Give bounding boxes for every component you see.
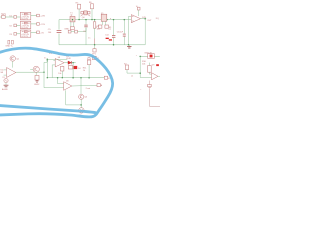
vertical x81 from bus: [80, 78, 82, 95]
lasso main: [0, 48, 113, 117]
wire pad2-box2: [17, 24, 21, 26]
supply symbol above U2: [137, 7, 140, 10]
pad P3L: [14, 33, 17, 36]
svg-text:1.8V: 1.8V: [142, 17, 147, 19]
transistor Q3 circle: [79, 94, 84, 99]
svg-text:B: B: [108, 78, 110, 80]
junction bus x57.6: [57, 77, 59, 79]
junction bus x81: [80, 77, 82, 79]
resistor R7 column x94.6: [94, 20, 96, 22]
svg-text:104: 104: [105, 34, 108, 36]
svg-text:DC2 PS: DC2 PS: [22, 27, 29, 29]
bottom-left connector circle: [4, 79, 8, 83]
pushbutton S2: [125, 65, 128, 70]
wire after diode: [72, 62, 76, 64]
wire C5 to rail: [58, 34, 60, 45]
svg-text:4148: 4148: [66, 58, 70, 60]
svg-text:AGND: AGND: [2, 88, 8, 91]
stubs below T1: [70, 22, 72, 27]
pad below rail x94.6: [94, 44, 96, 46]
crystal Q4: [81, 11, 83, 14]
wire A main net: [59, 20, 131, 30]
junction net A x124.3: [124, 19, 126, 21]
svg-text:rly: rly: [70, 14, 72, 17]
svg-text:+5V: +5V: [40, 32, 44, 34]
pink box T2: [101, 14, 107, 21]
cap column x113.5: [113, 20, 115, 35]
op-amp U1A: [7, 68, 16, 78]
junction net A x107: [106, 19, 108, 21]
ground G1: [128, 45, 130, 46]
svg-text:x1: x1: [131, 76, 134, 78]
Q2 stubs: [30, 68, 33, 70]
svg-text:2B: 2B: [66, 80, 69, 82]
svg-text:10k: 10k: [58, 73, 61, 75]
wire box3-pad R3: [31, 31, 37, 33]
resistor R8 vertical: [61, 65, 63, 68]
pad J2 right: [92, 56, 96, 59]
wire box2-pad R2: [31, 23, 37, 25]
svg-text:10k: 10k: [97, 28, 101, 30]
svg-text:+: +: [140, 89, 142, 91]
vertical x47.3: [46, 59, 48, 77]
svg-text:DC3 PS: DC3 PS: [22, 36, 29, 38]
red diode blob top right: [156, 64, 159, 66]
connector circle M1: [79, 108, 84, 113]
stub to junction: [80, 99, 82, 107]
pad P3R: [37, 31, 40, 34]
svg-text:V3: V3: [9, 34, 12, 36]
U1A output wire: [16, 71, 44, 73]
svg-text:D4: D4: [78, 68, 80, 70]
junction net A x79: [78, 19, 79, 20]
wire feedback step to node: [44, 62, 47, 87]
svg-text:S2: S2: [124, 64, 127, 66]
svg-text:2 out: 2 out: [86, 87, 91, 90]
connector J1: [2, 15, 6, 18]
svg-text:OUT: OUT: [147, 20, 152, 22]
svg-text:1n: 1n: [88, 37, 90, 39]
resistor R9: [68, 66, 72, 69]
minus input wire: [57, 78, 59, 84]
wire pad3-box3: [17, 33, 21, 35]
L wire bottom right: [150, 88, 161, 106]
feedback vertical x128.5: [129, 16, 132, 44]
R7 lower lead red: [94, 39, 96, 45]
svg-text:104: 104: [48, 32, 52, 34]
wire y59.3: [47, 58, 68, 60]
box below Q2: [35, 75, 39, 80]
svg-text:A: A: [101, 84, 103, 87]
wire y73.1: [127, 72, 140, 74]
junction bus x47.3: [47, 77, 48, 78]
diode D3: [64, 62, 68, 64]
supply pair R20 R21: [8, 40, 10, 44]
pink box T1: [70, 16, 75, 22]
ground bottom-left: [4, 84, 9, 86]
svg-text:1k: 1k: [83, 70, 86, 72]
junction output tee x44: [43, 72, 44, 73]
converter box U10: [20, 12, 31, 20]
lasso inner tail: [0, 106, 96, 113]
resistor R10: [148, 66, 152, 73]
vertical from junction: [139, 56, 141, 77]
stubs below T2: [101, 21, 103, 25]
pad P1R: [37, 14, 40, 17]
junction net A x113.5: [113, 19, 115, 21]
red polarity marks: [106, 38, 109, 39]
cap column x124.3: [123, 20, 125, 34]
svg-text:1N4148: 1N4148: [144, 53, 152, 55]
plus input wire: [44, 87, 64, 89]
svg-text:2A: 2A: [58, 56, 61, 59]
junction bus x89.1: [88, 77, 90, 79]
svg-text:V+: V+: [136, 6, 139, 8]
blue highlight lasso stroke: [0, 48, 113, 117]
svg-text:Q4: Q4: [82, 17, 86, 19]
svg-text:Q1: Q1: [16, 58, 20, 60]
wire pad1-box1: [17, 16, 21, 18]
wire y56.4: [140, 55, 148, 57]
capacitor C5: [57, 30, 62, 32]
svg-text:10k: 10k: [142, 64, 146, 66]
stub below Q1: [12, 61, 14, 67]
pad pair JP1: [68, 30, 71, 33]
diode D8 box: [148, 54, 155, 59]
wire J1 to pad1: [0, 16, 2, 18]
wire box1-pad R1: [31, 15, 37, 17]
pad P1L: [14, 16, 17, 19]
pad P2L: [14, 24, 17, 27]
junction net A x94.6: [94, 19, 96, 21]
svg-text:X1: X1: [2, 77, 4, 79]
svg-text:SV1: SV1: [1, 13, 6, 16]
svg-text:Q3: Q3: [84, 97, 88, 99]
crystal network: resistor R5: [78, 4, 81, 9]
op-amp U3: [55, 59, 64, 67]
converter box U12: [20, 30, 31, 37]
svg-text:GND2: GND2: [34, 84, 39, 86]
transistor Q1 circle: [10, 56, 15, 61]
resistor R11 column x89: [88, 58, 90, 60]
wire from JP1 to cap column: [77, 28, 86, 32]
junction bus x73.1: [72, 77, 74, 79]
svg-text:FQ: FQ: [156, 18, 159, 20]
svg-text:V2: V2: [9, 26, 12, 28]
junction node x47.3 y60.9: [47, 60, 48, 61]
wire to op-amp5 plus input: [140, 77, 151, 79]
junction net A x92: [91, 19, 92, 20]
bus end pad: [104, 76, 107, 79]
svg-text:C5: C5: [48, 29, 52, 31]
svg-text:DC1 PS: DC1 PS: [22, 18, 29, 20]
crystal marks: [81, 15, 84, 17]
svg-text:C7: C7: [109, 29, 111, 31]
op-amp U2: [131, 15, 140, 23]
comps below T2: [98, 25, 102, 28]
junction rail x113.5: [113, 44, 115, 46]
comp below T1: [70, 27, 74, 30]
bus C: [47, 77, 104, 79]
resistor R6: [91, 4, 94, 9]
output pad: [97, 84, 100, 87]
junction net A x86: [85, 19, 87, 21]
LED D4 red: [74, 66, 78, 69]
svg-text:GND V+: GND V+: [5, 46, 14, 48]
rail B (common): [59, 44, 145, 46]
junction rail x128.5: [128, 44, 130, 46]
svg-text:D9: D9: [152, 65, 155, 67]
svg-text:+: +: [136, 55, 138, 57]
op-amp U4: [64, 82, 72, 91]
output wire U2: [141, 18, 147, 20]
feedback L wire: [66, 90, 81, 105]
op-amp U5: [152, 73, 159, 80]
stubs down: [78, 9, 80, 20]
converter box U11: [20, 21, 31, 28]
svg-text:+15V: +15V: [40, 24, 45, 26]
svg-text:D1: D1: [10, 16, 13, 18]
svg-text:+24V: +24V: [40, 16, 45, 18]
svg-text:C10uF: C10uF: [117, 31, 124, 33]
marks below op-amp U5: [148, 84, 152, 87]
output wire U4: [72, 84, 97, 87]
pad P2R: [37, 23, 40, 26]
junction bus x62.3: [62, 77, 63, 78]
junction net A x72.5: [72, 19, 74, 21]
capacitor C6 column x86: [85, 20, 87, 25]
transistor Q2 circle: [33, 66, 39, 72]
